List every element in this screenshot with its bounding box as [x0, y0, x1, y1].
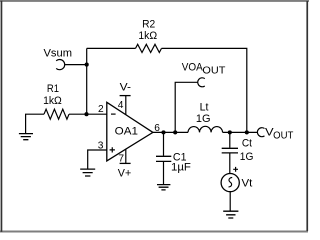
wire: R1 to op-amp pin 2: [69, 113, 107, 115]
svg-text:OUT: OUT: [202, 65, 226, 77]
junction node: output / C1: [161, 130, 165, 134]
ground (Vt): [223, 211, 238, 218]
terminal Vsum: [56, 59, 65, 69]
wire: VOAout tap: [175, 82, 198, 132]
op-amp non-inverting input plus sign: [110, 147, 115, 152]
junction node: inductor / Ct: [228, 130, 232, 134]
junction node: output / VOAout tap: [173, 130, 177, 134]
svg-text:V+: V+: [118, 167, 132, 179]
svg-text:1µF: 1µF: [171, 161, 191, 173]
terminal VOAout: [198, 78, 205, 87]
op-amp pin 7 lead: [125, 149, 127, 164]
svg-text:Lt: Lt: [200, 101, 210, 113]
capacitor Ct plates: [222, 148, 238, 153]
svg-text:4: 4: [118, 100, 124, 111]
V+ supply bar: [120, 162, 131, 164]
voltage source plus sign: [233, 167, 238, 172]
wire: summing node to R2 (top feedback, left segment): [87, 47, 136, 49]
svg-text:Vt: Vt: [242, 177, 254, 189]
wire: inductor to VOUT terminal: [223, 131, 258, 133]
op-amp inverting input minus sign: [111, 113, 116, 115]
capacitor C1 lead (bottom): [163, 162, 165, 184]
voltage source Vt sine squiggle: [229, 177, 233, 187]
svg-text:1G: 1G: [196, 113, 211, 125]
svg-text:OUT: OUT: [273, 130, 293, 141]
capacitor Ct lead (bottom): [229, 153, 231, 173]
wire: op-amp output pin 6 to inductor: [153, 131, 188, 133]
svg-text:Ct: Ct: [242, 138, 253, 150]
wire: op-amp pin 3 to ground: [88, 150, 107, 169]
svg-text:R2: R2: [142, 19, 155, 31]
svg-text:VOA: VOA: [182, 62, 203, 74]
svg-text:1kΩ: 1kΩ: [43, 95, 62, 107]
junction node: R2 feedback / VOUT: [245, 130, 249, 134]
ground (pin 3): [80, 169, 95, 176]
wire: R2 to output node (top right, down right side): [162, 48, 247, 132]
wire: summing node vertical: [86, 48, 88, 114]
svg-text:2: 2: [98, 104, 104, 115]
op-amp pin 4 lead: [125, 96, 127, 115]
svg-text:1G: 1G: [240, 151, 254, 163]
wire: Vsum terminal to summing node: [65, 64, 87, 66]
capacitor C1 lead (top): [163, 132, 165, 155]
voltage source Vt circle: [221, 174, 239, 192]
inductor Lt: [188, 126, 223, 132]
svg-text:OA1: OA1: [115, 125, 138, 137]
V- supply bar: [120, 95, 131, 97]
wire: ground to R1: [26, 114, 44, 133]
svg-text:Vsum: Vsum: [44, 47, 73, 59]
terminal VOUT: [257, 128, 264, 137]
ground (R1 left): [19, 134, 33, 140]
ground (C1): [157, 185, 170, 190]
svg-text:7: 7: [118, 153, 124, 164]
svg-text:3: 3: [98, 141, 104, 152]
resistor R2: [136, 44, 162, 52]
junction node: summing node / Vsum: [85, 63, 89, 67]
junction node: summing node / R1 / pin 2: [84, 112, 88, 116]
capacitor C1 plates: [156, 156, 171, 161]
svg-text:V-: V-: [120, 82, 132, 94]
svg-text:6: 6: [154, 123, 160, 134]
svg-text:R1: R1: [47, 83, 59, 95]
capacitor Ct lead (top): [229, 132, 231, 147]
resistor R1: [44, 109, 69, 119]
svg-text:1kΩ: 1kΩ: [138, 30, 157, 42]
wire: Vt to ground: [229, 192, 231, 211]
op-amp OA1 triangle: [107, 102, 153, 161]
